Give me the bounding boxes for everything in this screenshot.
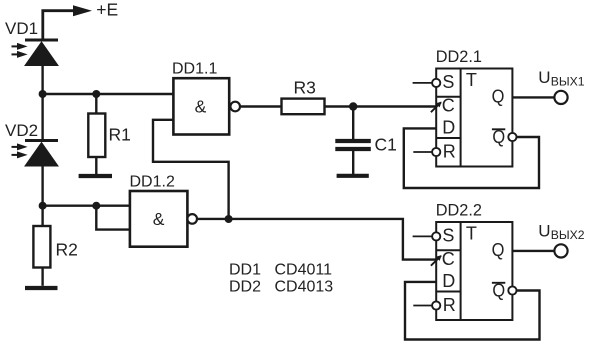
svg-text:C1: C1 [375,135,397,155]
wire DD1.2 output feedback to DD1.1 input 2 [153,120,229,219]
node junction DD1.2 out / feedback [225,215,233,223]
svg-text:&: & [195,97,207,117]
wire R stub DD2.2 [413,305,432,307]
node junction R3/C1 [349,102,357,110]
svg-text:U: U [538,222,550,241]
flip-flop DD2.1 box [436,69,512,167]
flip-flop DD2.2 box [436,222,512,320]
pin R bubble DD2.2 [432,301,440,309]
gate DD1.1 [173,78,240,134]
svg-text:R2: R2 [56,240,78,260]
svg-text:S: S [442,226,454,246]
pin inverse Q bubble DD2.2 [508,286,516,294]
wire VD1 to node A [41,66,43,95]
wire Q output DD2.1 [512,96,554,98]
svg-text:ВЫХ2: ВЫХ2 [551,228,585,242]
wire R3 to DD2.1 C input [325,105,436,107]
photodiode VD2 [12,141,59,167]
resistor R2 [33,206,50,286]
svg-text:DD2: DD2 [229,279,261,296]
gate DD1.2 [130,191,197,247]
wire node A to DD1.1 input 1 [43,93,174,95]
label Uvyh2 [538,222,584,242]
svg-text:S: S [442,72,454,92]
capacitor C1 [335,107,371,175]
wire S stub DD2.1 [413,82,433,84]
wire node A to VD2 [41,94,43,141]
pin C dynamic arrow DD2.1 [431,102,442,113]
wire node B to DD1.2 input 1 [43,204,130,206]
svg-text:DD1.2: DD1.2 [130,174,175,191]
svg-text:VD2: VD2 [5,121,38,140]
svg-text:C: C [442,95,455,115]
label Uvyh1 [538,68,584,88]
svg-text:+E: +E [96,0,118,20]
wire DD1.1 output to R3 [240,105,282,107]
wire +E vertical/horizontal [43,11,74,40]
svg-text:DD1: DD1 [229,262,261,279]
pin R bubble DD2.1 [432,148,440,156]
node B junction [39,202,47,210]
ground under R2 [25,286,58,290]
svg-text:Q: Q [492,240,505,260]
wire DD1.2 input 2 tie [96,206,130,230]
resistor R3 [282,99,325,115]
ground under R1 [79,174,112,178]
pin C dynamic arrow DD2.2 [431,255,442,266]
svg-text:T: T [466,70,477,90]
wire S stub DD2.2 [413,235,433,237]
svg-text:U: U [538,68,550,87]
resistor R1 [88,94,105,174]
svg-text:R1: R1 [109,125,131,145]
terminal Uvyh2 [554,244,567,257]
wire R stub DD2.1 [413,151,432,153]
svg-text:CD4013: CD4013 [275,279,334,296]
svg-text:DD2.2: DD2.2 [436,202,482,220]
pin S bubble DD2.1 [432,79,440,87]
svg-text:C: C [442,249,455,269]
pin labels DD2.2 [442,224,505,315]
power +E arrow [73,5,92,16]
wire Q output DD2.2 [512,250,554,252]
note DD1 CD4011 [229,262,332,279]
overbar inverse Q DD2.2 [492,282,505,284]
ground under C1 [337,174,369,178]
wire DD1.2 output to DD2.2 C input [197,219,436,260]
note DD2 CD4013 [229,279,333,296]
node junction R1 top [92,90,100,98]
svg-text:&: & [153,209,165,229]
svg-text:D: D [442,271,455,291]
wire VD2 to node B [41,166,43,206]
svg-text:D: D [442,118,455,138]
node A junction [39,90,47,98]
svg-text:DD2.1: DD2.1 [436,48,482,66]
svg-text:DD1.1: DD1.1 [172,60,217,77]
pin inverse Q bubble DD2.1 [508,133,516,141]
svg-text:ВЫХ1: ВЫХ1 [551,74,585,88]
svg-text:Q: Q [492,87,505,107]
svg-text:VD1: VD1 [5,19,38,38]
pin S bubble DD2.2 [432,232,440,240]
overbar inverse Q DD2.1 [492,128,505,130]
svg-text:T: T [466,224,477,244]
node junction DD1.2 tie [92,202,100,210]
svg-text:CD4011: CD4011 [275,262,333,279]
pin labels DD2.1 [442,70,505,161]
svg-text:R: R [443,142,456,162]
terminal Uvyh1 [554,91,567,104]
wire D feedback from inverse Q DD2.1 [404,128,539,188]
wire D feedback from inverse Q DD2.2 [405,282,540,340]
svg-text:R3: R3 [294,78,316,98]
svg-text:R: R [443,295,456,315]
photodiode VD1 [12,40,59,66]
